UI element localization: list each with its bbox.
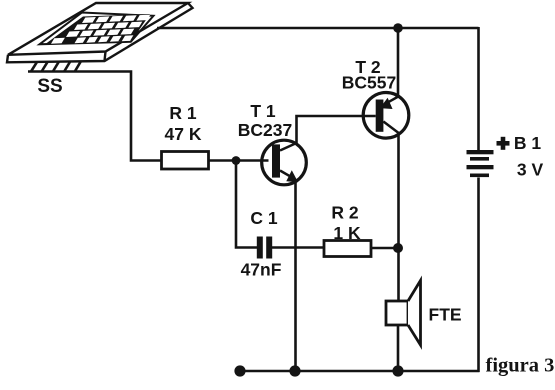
svg-text:3 V: 3 V xyxy=(517,160,544,180)
svg-text:T 1: T 1 xyxy=(250,101,276,121)
svg-text:FTE: FTE xyxy=(429,305,462,325)
svg-text:R 1: R 1 xyxy=(169,103,197,123)
svg-text:C 1: C 1 xyxy=(250,208,278,228)
svg-text:B 1: B 1 xyxy=(514,133,542,153)
svg-text:BC557: BC557 xyxy=(342,73,396,93)
svg-text:47 K: 47 K xyxy=(165,124,202,144)
svg-text:SS: SS xyxy=(37,76,62,97)
svg-text:figura 3: figura 3 xyxy=(486,355,555,377)
svg-text:47nF: 47nF xyxy=(241,260,282,280)
svg-text:BC237: BC237 xyxy=(238,120,292,140)
svg-text:1 K: 1 K xyxy=(333,223,361,243)
svg-text:R 2: R 2 xyxy=(331,203,359,223)
